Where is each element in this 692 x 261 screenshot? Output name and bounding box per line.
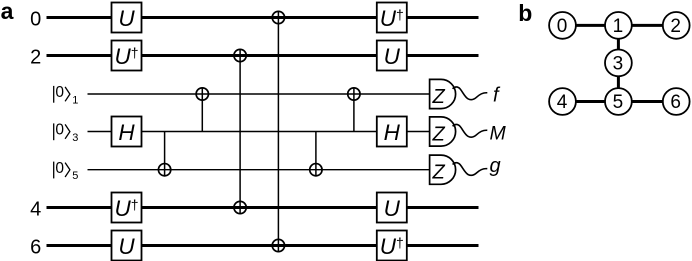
svg-text:H: H (118, 120, 135, 145)
svg-text:a: a (1, 0, 14, 24)
svg-text:4: 4 (30, 199, 41, 221)
svg-text:0: 0 (557, 16, 568, 37)
svg-text:Z: Z (431, 123, 445, 145)
gate H on ancilla3 left (112, 117, 142, 147)
gate U on wire0 left (112, 3, 142, 33)
connector XOR wire2 to XOR wire4, col4 (239, 49, 241, 214)
squiggle g (453, 163, 488, 176)
graph edge 1-2 (618, 24, 676, 27)
measurement Z on ancilla5 (430, 155, 456, 184)
wire ancilla 5 (88, 169, 430, 171)
svg-text:6: 6 (30, 237, 41, 259)
wire 6 (qubit 6, thick) (47, 244, 479, 247)
XOR target on wire2 col4 (234, 49, 246, 61)
svg-text:4: 4 (557, 92, 568, 113)
svg-text:3: 3 (72, 132, 78, 144)
svg-text:U: U (118, 6, 135, 31)
graph node 1 (605, 12, 632, 39)
gate U on wire6 left (112, 231, 142, 261)
XOR target on ancilla1 col7 (348, 88, 360, 100)
svg-text:1: 1 (613, 16, 624, 37)
measurement Z on ancilla1 (430, 79, 456, 108)
ket label |0>_5 (54, 160, 79, 182)
graph node 3 (605, 50, 632, 77)
gate U-dagger on wire0 right (377, 3, 407, 33)
svg-text:5: 5 (613, 92, 624, 113)
svg-text:0: 0 (55, 122, 64, 139)
measurement Z on ancilla3 (430, 117, 456, 146)
XOR target on wire0 col5 (272, 11, 284, 23)
svg-text:g: g (490, 155, 501, 177)
XOR target on ancilla5 col6 (310, 164, 322, 176)
ket label |0>_3 (54, 122, 79, 144)
connector ancilla3 to XOR on ancilla5, col6 (315, 132, 317, 177)
connector XOR on ancilla1 to ancilla3, col7 (353, 88, 355, 132)
graph node 6 (663, 88, 690, 115)
graph node 4 (549, 88, 576, 115)
XOR target on wire6 col5 (272, 239, 284, 251)
svg-text:0: 0 (55, 84, 64, 101)
svg-text:2: 2 (670, 16, 681, 37)
graph edge 5-6 (618, 100, 676, 103)
svg-text:H: H (384, 120, 401, 145)
graph edge 4-5 (563, 100, 619, 103)
graph edge 1-3 (617, 25, 620, 63)
graph node 5 (605, 88, 632, 115)
connector XOR wire0 to XOR wire6, col5 (277, 11, 279, 252)
wire ancilla 1 (88, 93, 430, 95)
gate U-dagger on wire2 left (112, 41, 142, 71)
svg-text:Z: Z (431, 162, 445, 184)
ket label |0>_1 (54, 84, 79, 106)
svg-text:f: f (493, 85, 501, 107)
XOR target on wire4 col4 (234, 201, 246, 213)
squiggle M (453, 124, 488, 137)
graph node 2 (663, 12, 690, 39)
svg-text:6: 6 (670, 92, 681, 113)
svg-text:0: 0 (55, 160, 64, 177)
svg-text:Z: Z (431, 86, 445, 108)
gate U on wire2 right (377, 41, 407, 71)
svg-text:3: 3 (613, 54, 624, 75)
svg-text:2: 2 (30, 47, 41, 69)
svg-text:5: 5 (72, 170, 78, 182)
svg-text:U: U (384, 44, 401, 69)
graph node 0 (549, 12, 576, 39)
connector XOR on ancilla1 to ancilla3, col3 (201, 88, 203, 132)
svg-text:1: 1 (72, 94, 78, 106)
wire ancilla 3 (88, 131, 430, 133)
graph edge 3-5 (617, 63, 620, 102)
svg-text:U: U (384, 196, 401, 221)
gate H on ancilla3 right (377, 117, 407, 147)
XOR target on ancilla1 col3 (196, 88, 208, 100)
gate U-dagger on wire4 left (112, 193, 142, 223)
svg-text:b: b (518, 0, 532, 26)
wire 2 (qubit 2, thick) (47, 54, 479, 57)
svg-text:0: 0 (30, 9, 41, 31)
squiggle f (453, 87, 488, 100)
gate U on wire4 right (377, 193, 407, 223)
svg-text:U: U (118, 234, 135, 259)
gate U-dagger on wire6 right (377, 231, 407, 261)
graph edge 0-1 (563, 24, 619, 27)
wire 0 (qubit 0, thick) (47, 16, 479, 19)
connector ancilla3 to XOR on ancilla5, col2 (164, 132, 166, 177)
svg-text:M: M (490, 122, 507, 144)
wire 4 (qubit 4, thick) (47, 206, 479, 209)
XOR target on ancilla5 col2 (158, 164, 170, 176)
